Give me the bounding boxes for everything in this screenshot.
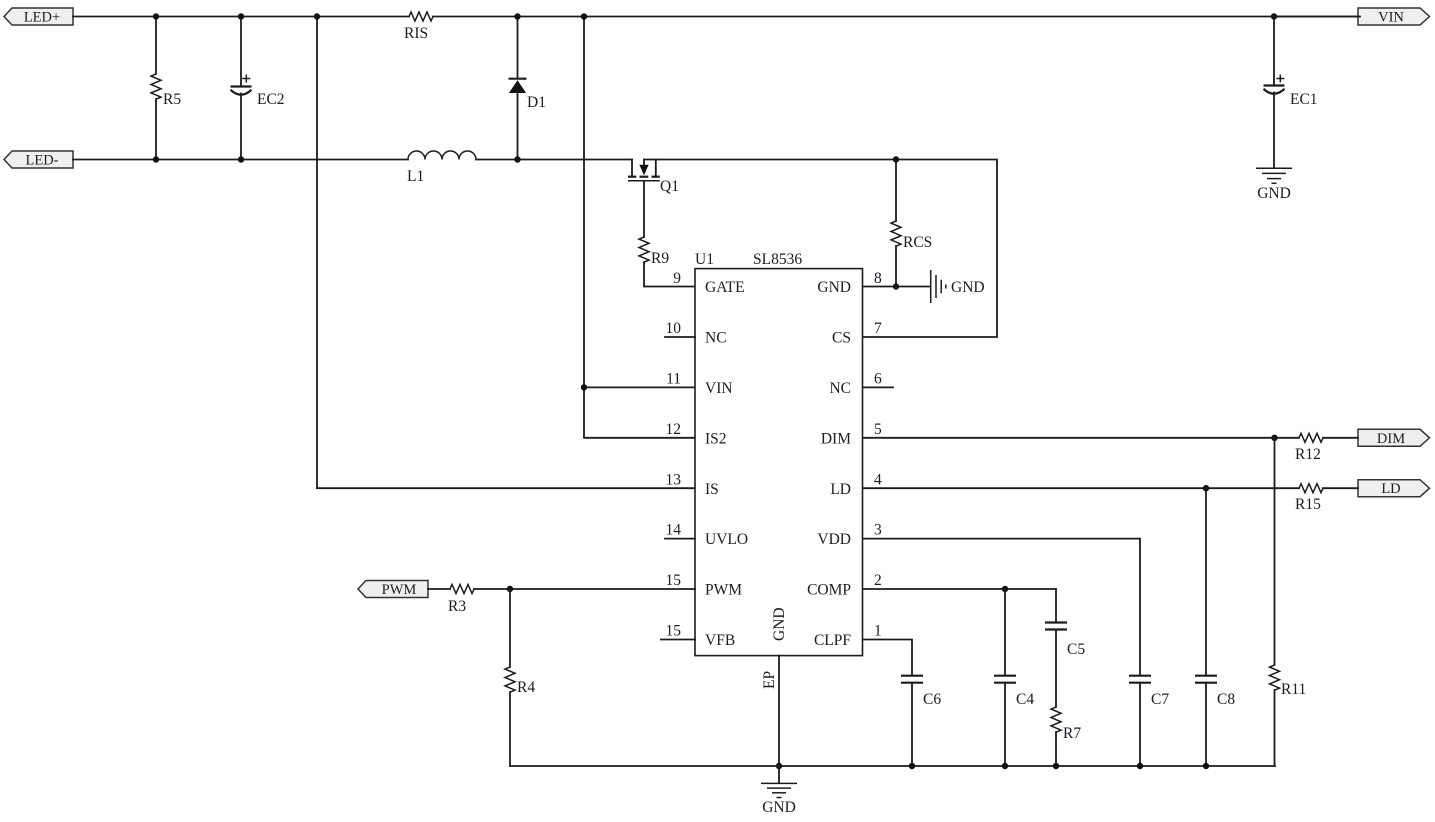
resistor R11 bbox=[1270, 438, 1307, 766]
svg-text:SL8536: SL8536 bbox=[753, 251, 802, 268]
svg-text:R12: R12 bbox=[1295, 446, 1321, 463]
svg-text:Q1: Q1 bbox=[660, 178, 679, 195]
svg-text:D1: D1 bbox=[527, 94, 546, 111]
node dot LD / C8 bbox=[1203, 485, 1209, 491]
wire PWM flag to R3 bbox=[428, 588, 450, 590]
svg-text:NC: NC bbox=[829, 380, 851, 397]
svg-text:VIN: VIN bbox=[1378, 10, 1404, 26]
svg-text:8: 8 bbox=[874, 270, 882, 287]
svg-text:COMP: COMP bbox=[807, 582, 851, 599]
port flag PWM bbox=[358, 581, 428, 599]
svg-text:EC1: EC1 bbox=[1290, 91, 1318, 108]
svg-text:GND: GND bbox=[771, 607, 788, 641]
svg-text:11: 11 bbox=[666, 371, 681, 388]
capacitor EC1 (polarized) bbox=[1264, 17, 1318, 168]
svg-text:L1: L1 bbox=[407, 168, 424, 185]
svg-text:IS2: IS2 bbox=[705, 430, 727, 447]
svg-text:10: 10 bbox=[666, 320, 682, 337]
svg-text:C5: C5 bbox=[1067, 641, 1085, 658]
capacitor C5 bbox=[1045, 589, 1085, 707]
svg-text:EP: EP bbox=[761, 671, 778, 689]
node dot C5R7 / rail bbox=[1053, 763, 1059, 769]
node dot LED- / EC2 bbox=[238, 156, 244, 162]
svg-text:GND: GND bbox=[817, 279, 851, 296]
node dot C7 / rail bbox=[1137, 763, 1143, 769]
svg-text:VDD: VDD bbox=[817, 531, 851, 548]
svg-text:2: 2 bbox=[874, 572, 882, 589]
svg-text:5: 5 bbox=[874, 421, 882, 438]
node dot C8 / rail bbox=[1203, 763, 1209, 769]
wire VIN rail to flag bbox=[1274, 16, 1358, 18]
svg-text:LD: LD bbox=[830, 481, 851, 498]
resistor R7 bbox=[1051, 707, 1081, 766]
svg-text:15: 15 bbox=[666, 623, 682, 640]
resistor RIS bbox=[404, 12, 433, 42]
svg-text:NC: NC bbox=[705, 330, 727, 347]
svg-text:12: 12 bbox=[666, 421, 682, 438]
resistor R4 bbox=[505, 589, 535, 766]
node dot LED+ / x584 branch bbox=[581, 13, 587, 19]
node dot COMP / C4 bbox=[1002, 586, 1008, 592]
node dot LED+ / EC2 bbox=[238, 13, 244, 19]
capacitor C8 bbox=[1195, 488, 1235, 766]
svg-text:R7: R7 bbox=[1063, 725, 1081, 742]
svg-text:EC2: EC2 bbox=[257, 91, 285, 108]
svg-text:U1: U1 bbox=[695, 251, 714, 268]
wire top LED+ rail left segment bbox=[73, 16, 409, 18]
node dot RCS top bbox=[893, 156, 899, 162]
node dot VIN pin11 junction bbox=[581, 384, 587, 390]
node dot PWM / R4 bbox=[507, 586, 513, 592]
wire IS branch (x=317 from LED+ rail down to pin 13) bbox=[317, 17, 695, 489]
svg-text:VIN: VIN bbox=[705, 380, 733, 397]
svg-text:9: 9 bbox=[673, 270, 681, 287]
svg-text:VFB: VFB bbox=[705, 632, 735, 649]
pin 14 UVLO stub bbox=[665, 538, 695, 540]
svg-text:1: 1 bbox=[874, 623, 882, 640]
svg-text:3: 3 bbox=[874, 522, 882, 539]
wire pin2 COMP to C4/C5 bbox=[863, 588, 1056, 590]
capacitor C6 bbox=[901, 676, 941, 766]
port flag LED+ bbox=[4, 8, 73, 26]
node dot RCS / pin8 bbox=[893, 283, 899, 289]
svg-text:PWM: PWM bbox=[705, 582, 742, 599]
svg-text:R4: R4 bbox=[517, 679, 535, 696]
svg-text:RCS: RCS bbox=[903, 234, 932, 251]
resistor R12 bbox=[1295, 433, 1323, 463]
port flag VIN bbox=[1358, 8, 1430, 26]
resistor R3 bbox=[448, 585, 474, 616]
svg-text:UVLO: UVLO bbox=[705, 531, 748, 548]
svg-text:15: 15 bbox=[666, 572, 682, 589]
wire LED- rail left segment bbox=[73, 159, 408, 161]
svg-text:C6: C6 bbox=[923, 691, 941, 708]
wire VIN/IS2 branch (x=584 from LED+ rail down) bbox=[584, 17, 695, 388]
svg-text:CLPF: CLPF bbox=[814, 632, 851, 649]
svg-text:LED+: LED+ bbox=[24, 10, 60, 26]
svg-text:R9: R9 bbox=[651, 250, 669, 267]
wire pin8 to ground bbox=[863, 286, 929, 288]
wire EP to ground rail bbox=[778, 656, 780, 766]
svg-text:DIM: DIM bbox=[1377, 431, 1405, 447]
svg-text:7: 7 bbox=[874, 320, 882, 337]
ground GND bottom bbox=[761, 766, 797, 816]
node dot VIN / EC1 bbox=[1271, 13, 1277, 19]
port flag LED- bbox=[4, 151, 73, 169]
wire R15 to LD flag bbox=[1323, 487, 1358, 489]
wire R12 to DIM flag bbox=[1323, 437, 1358, 439]
node dot DIM / R11 bbox=[1271, 435, 1277, 441]
svg-text:R15: R15 bbox=[1295, 496, 1321, 513]
resistor R5 bbox=[151, 17, 181, 160]
svg-text:C7: C7 bbox=[1151, 691, 1169, 708]
resistor R15 bbox=[1295, 484, 1323, 513]
port flag DIM bbox=[1358, 429, 1430, 447]
capacitor C7 bbox=[1129, 676, 1169, 766]
node dot LED+ / IS branch bbox=[314, 13, 320, 19]
svg-text:RIS: RIS bbox=[404, 25, 428, 42]
node dot EP / bottom rail bbox=[776, 763, 782, 769]
svg-text:R11: R11 bbox=[1281, 681, 1306, 698]
svg-text:13: 13 bbox=[666, 471, 682, 488]
svg-text:LED-: LED- bbox=[25, 153, 58, 169]
op IC U1 SL8536 body bbox=[695, 251, 863, 656]
svg-text:R3: R3 bbox=[448, 598, 466, 615]
svg-text:GATE: GATE bbox=[705, 279, 745, 296]
svg-text:LD: LD bbox=[1381, 481, 1400, 497]
wire IS2 segment bbox=[584, 387, 695, 437]
wire LED- rail right segment to Q1 bbox=[476, 159, 632, 161]
svg-text:C4: C4 bbox=[1016, 691, 1034, 708]
svg-text:GND: GND bbox=[762, 799, 796, 816]
ground (rotated) at pin 8 bbox=[931, 270, 985, 303]
svg-text:CS: CS bbox=[832, 330, 851, 347]
svg-text:14: 14 bbox=[666, 522, 682, 539]
ground GND at EC1 bbox=[1256, 168, 1292, 202]
diode D1 bbox=[509, 17, 546, 160]
port flag LD bbox=[1358, 480, 1430, 498]
wire top LED+ rail right segment bbox=[433, 16, 1360, 18]
node dot LED- / D1 bbox=[514, 156, 520, 162]
svg-text:IS: IS bbox=[705, 481, 719, 498]
resistor R9 bbox=[639, 181, 695, 287]
node dot C4 / rail bbox=[1002, 763, 1008, 769]
inductor L1 bbox=[407, 151, 476, 185]
wire Q1 right to RCS/CS loop bbox=[644, 160, 997, 338]
wire bottom ground rail bbox=[510, 765, 1275, 767]
transistor Q1 (N-MOSFET) bbox=[628, 160, 679, 196]
wire pin1 CLPF to C6 bbox=[863, 640, 912, 676]
pin 6 NC stub bbox=[863, 386, 893, 388]
svg-text:6: 6 bbox=[874, 371, 882, 388]
node dot LED+ / D1 bbox=[514, 13, 520, 19]
node dot C6 / rail bbox=[909, 763, 915, 769]
wire R3 to pin15 PWM bbox=[474, 588, 695, 590]
svg-text:DIM: DIM bbox=[821, 430, 851, 447]
wire pin3 VDD to C7 bbox=[863, 539, 1140, 675]
capacitor EC2 (polarized) bbox=[231, 17, 285, 160]
svg-text:GND: GND bbox=[1257, 185, 1291, 202]
svg-text:PWM: PWM bbox=[382, 582, 417, 598]
svg-text:4: 4 bbox=[874, 471, 882, 488]
node dot LED+ / R5 bbox=[153, 13, 159, 19]
wire pin5 DIM to R12 bbox=[863, 437, 1299, 439]
pin 10 NC stub bbox=[665, 336, 695, 338]
svg-text:R5: R5 bbox=[163, 91, 181, 108]
resistor RCS bbox=[891, 160, 932, 287]
svg-text:C8: C8 bbox=[1217, 691, 1235, 708]
capacitor C4 bbox=[994, 589, 1034, 766]
svg-text:GND: GND bbox=[951, 279, 985, 296]
pin 15 VFB stub bbox=[661, 639, 695, 641]
node dot LED- / R5 bbox=[153, 156, 159, 162]
wire pin4 LD to R15 bbox=[863, 487, 1299, 489]
